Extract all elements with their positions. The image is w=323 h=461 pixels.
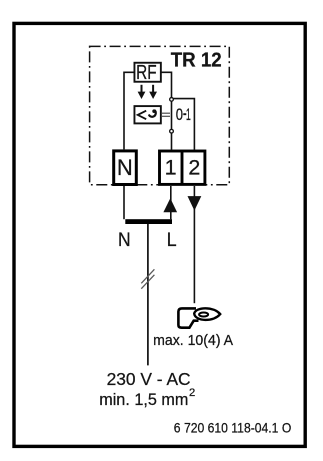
cable break marks (double slash) bbox=[141, 269, 154, 288]
svg-text:0: 0 bbox=[176, 105, 183, 124]
wire: RF left lead to N terminal bbox=[124, 72, 135, 149]
svg-text:1: 1 bbox=[186, 105, 191, 124]
wire: N terminal down to bar bbox=[123, 186, 125, 219]
svg-text:2: 2 bbox=[189, 387, 195, 399]
wire: terminal 1 down to bar (L) bbox=[170, 186, 172, 219]
svg-text:max. 10(4) A: max. 10(4) A bbox=[153, 332, 233, 349]
terminal N box bbox=[114, 151, 137, 185]
svg-text:min. 1,5 mm: min. 1,5 mm bbox=[99, 391, 188, 409]
< symbol bbox=[138, 111, 147, 120]
arrow up (into terminal 1) bbox=[163, 198, 177, 212]
divider between 1 and 2 bbox=[181, 151, 184, 184]
RF receiver box U1 bbox=[134, 62, 160, 84]
signal arrows (two down arrows) bbox=[138, 85, 157, 99]
eye / impeller bbox=[194, 308, 220, 320]
svg-text:6 720 610 118-04.1 O: 6 720 610 118-04.1 O bbox=[174, 420, 291, 435]
mechanical linkage (double line) to switch bbox=[162, 113, 170, 116]
wire: terminal 2 down to load bbox=[193, 186, 195, 303]
svg-text:230 V - AC: 230 V - AC bbox=[107, 369, 191, 389]
wire: mains cable down bbox=[147, 224, 149, 365]
svg-text:RF: RF bbox=[136, 62, 157, 84]
thermostat box (< theta) bbox=[134, 106, 160, 123]
svg-text:TR 12: TR 12 bbox=[171, 49, 222, 71]
mains bar bbox=[125, 219, 172, 224]
wire: branch from junction to terminal 2 bbox=[172, 99, 195, 150]
switch contact top circle bbox=[170, 98, 174, 102]
switch label 0-1 bbox=[176, 105, 191, 124]
svg-text:L: L bbox=[167, 230, 177, 251]
svg-text:1: 1 bbox=[165, 155, 177, 179]
load icon (pump / appliance) bbox=[178, 308, 220, 327]
svg-text:2: 2 bbox=[188, 155, 200, 179]
switch contact bottom circle bbox=[170, 129, 174, 133]
label min. 1,5 mm2 bbox=[99, 387, 195, 409]
wire: RF right lead down to switch and terminal 1 bbox=[161, 72, 172, 149]
bracket housing bbox=[178, 308, 198, 327]
svg-text:N: N bbox=[117, 155, 133, 180]
svg-text:N: N bbox=[118, 230, 131, 251]
theta (temperature) glyph bbox=[149, 111, 156, 117]
terminal block 1 2 bbox=[160, 151, 205, 184]
dashed enclosure (thermostat housing) bbox=[90, 46, 230, 184]
arrow down (out of terminal 2) bbox=[188, 196, 202, 211]
